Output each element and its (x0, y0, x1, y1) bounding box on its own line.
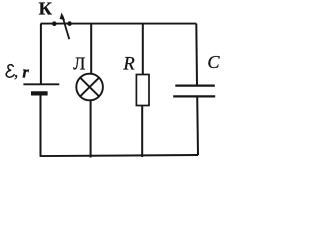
svg-text:Л: Л (73, 53, 85, 73)
svg-text:r: r (22, 63, 29, 82)
svg-text:C: C (207, 52, 220, 72)
svg-text:,: , (14, 62, 18, 81)
svg-text:R: R (122, 54, 135, 75)
svg-text:К: К (39, 0, 53, 18)
